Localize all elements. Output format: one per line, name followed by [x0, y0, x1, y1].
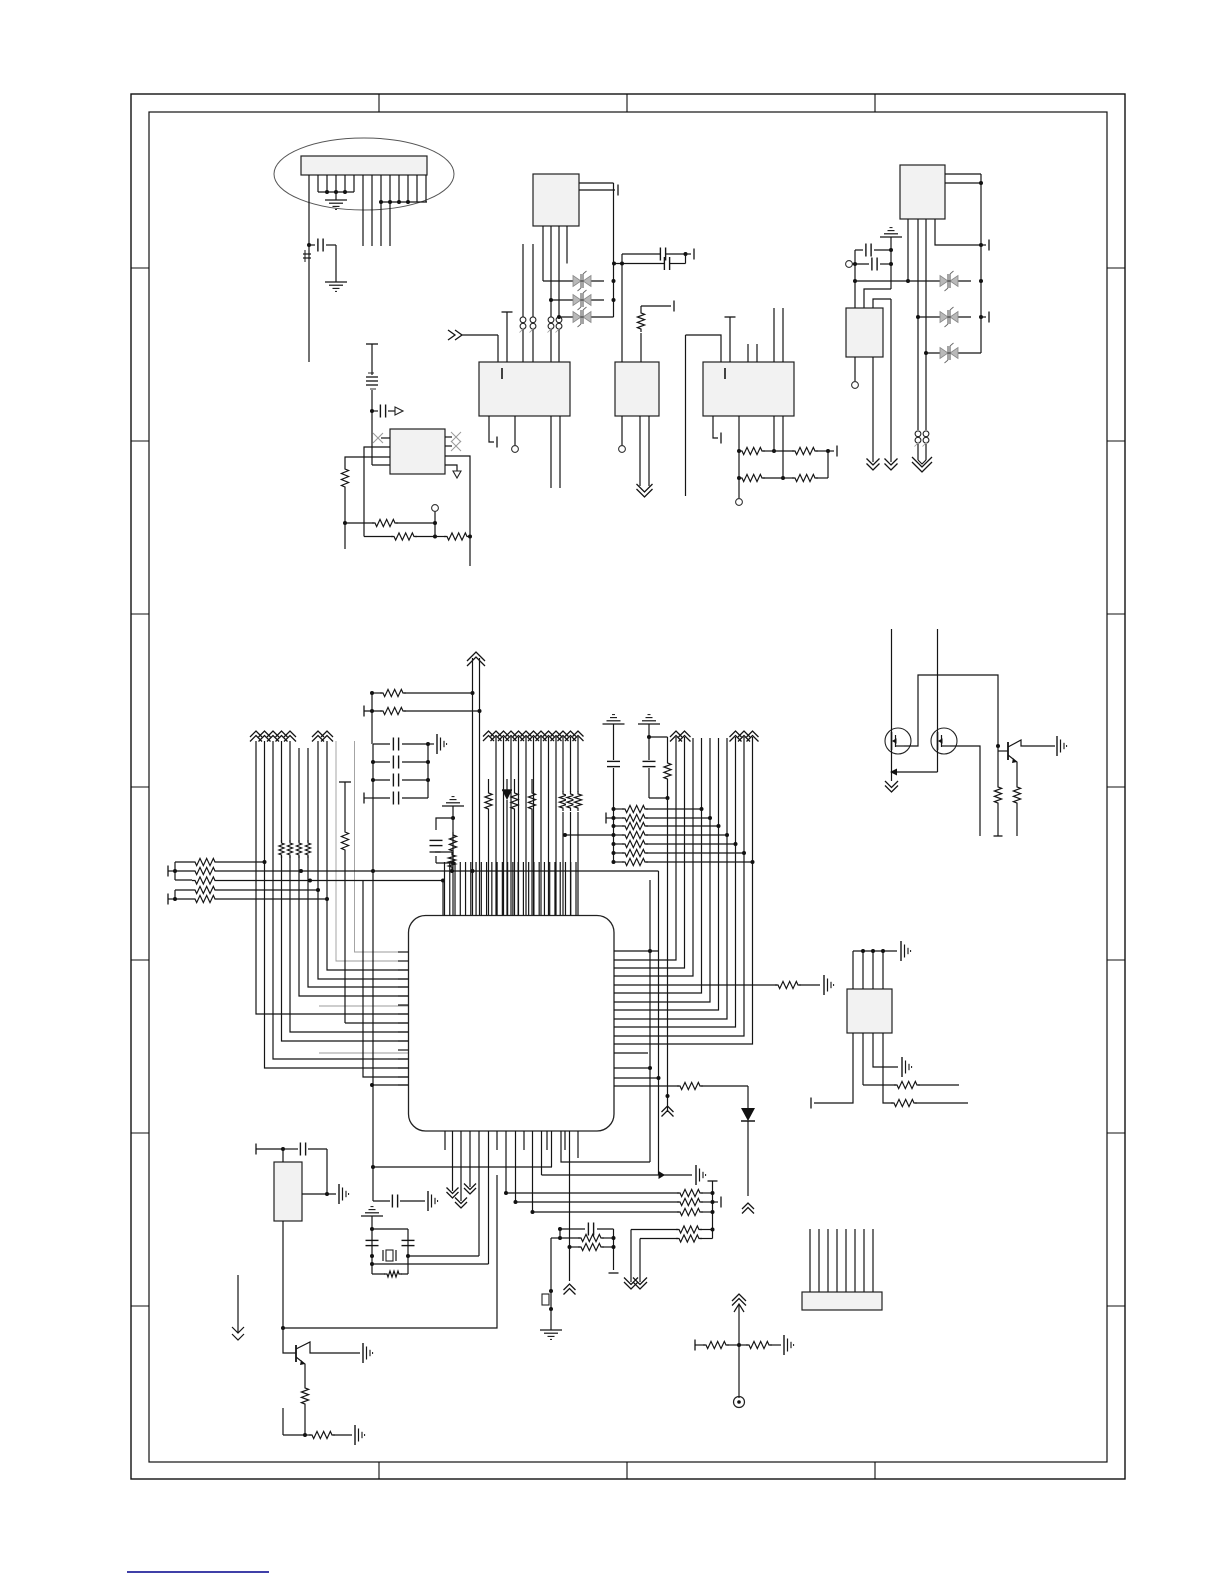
input bus B — [173, 890, 192, 901]
capacitor C11 — [283, 1143, 327, 1195]
U7 bottom pin circle — [852, 357, 859, 388]
U5 bottom pin 1 — [906, 219, 910, 283]
chevron group above MCU 2 — [536, 731, 562, 741]
ground symbol above caps — [880, 228, 902, 237]
source join wire — [890, 769, 938, 782]
row wire C — [531, 1208, 715, 1215]
MCU top pin comb — [445, 862, 577, 916]
IC U1 body — [390, 429, 445, 474]
resistor trio right — [559, 791, 583, 915]
crystal Y1 with caps — [366, 1229, 415, 1274]
ferrite bead FB4 — [548, 317, 554, 333]
MCU right pin bend 2 — [614, 737, 685, 968]
U1 NC pin X right — [445, 432, 461, 442]
MCU right pin bend 10 — [614, 737, 753, 1044]
U4 top pin wire — [621, 254, 623, 362]
left bus wire 4 — [282, 741, 409, 1041]
pull resistor row 2 — [614, 814, 713, 821]
hyperlink underline bottom left — [127, 1571, 269, 1573]
ground right of cap bank — [428, 734, 447, 754]
U8 bottom pin D — [883, 1033, 968, 1107]
U1 NC pin X — [373, 433, 390, 443]
capacitor C1 — [309, 239, 336, 283]
wire jog to U7 pin3 — [873, 299, 891, 308]
IC U2 body — [533, 174, 579, 226]
chevrons off-page pair — [624, 1278, 647, 1290]
MCU right pin bend 8 — [614, 737, 736, 1027]
U8 bottom pin C — [873, 1033, 912, 1077]
sheet border outer frame — [131, 94, 1125, 1479]
U8 bottom pin B — [862, 1033, 864, 1085]
long vertical A — [658, 871, 660, 1175]
row wire B — [514, 1197, 722, 1208]
capacitor C6 — [372, 405, 403, 418]
right row H — [640, 1235, 713, 1282]
capacitor C2 row — [622, 248, 694, 261]
header J2 body — [802, 1292, 882, 1310]
TVS row wire 2 — [916, 312, 989, 323]
MCU right pin bend 1 — [614, 737, 676, 960]
wire clock to U1 — [370, 390, 390, 465]
MCU right pin row short — [614, 1052, 648, 1054]
ground right of U8 pins — [901, 941, 911, 961]
MCU right pin bend 4 — [614, 738, 702, 993]
U6 bottom pin wire 3 — [781, 416, 785, 480]
USB data lines join — [918, 444, 926, 464]
row wire D cap — [558, 1223, 619, 1274]
left bus wire 7 — [308, 748, 409, 987]
net wire down to off-page — [890, 299, 892, 462]
border zone tick marks — [131, 94, 1125, 1479]
vertical resistor B — [511, 779, 518, 915]
signal bundle into MCU top — [496, 737, 556, 915]
U6 pin1 mark — [724, 368, 726, 379]
MOSFET Q2 — [931, 629, 957, 772]
MCU right pin bend 3 — [614, 738, 693, 976]
MCU right row j1 — [614, 1067, 650, 1069]
TVS diode D6 — [940, 343, 958, 363]
chevron trio right — [558, 731, 584, 800]
IC U6 body — [703, 362, 794, 416]
IC U4 body — [615, 362, 659, 416]
vertical resistor A — [485, 779, 492, 915]
resistor R20 — [1013, 784, 1020, 836]
resistor R4 — [739, 474, 783, 481]
T-term and resistor at MCU top left — [430, 852, 456, 871]
U6 top pin stub B — [756, 344, 758, 362]
wire top T — [256, 1144, 285, 1155]
wire — [371, 693, 373, 744]
chevron single — [564, 1247, 576, 1295]
off-page chevrons left bus A — [250, 731, 296, 742]
wire — [344, 523, 346, 549]
tall ground symbol A — [603, 715, 625, 760]
resistor R15 row — [370, 689, 473, 696]
sheet border inner frame — [149, 112, 1107, 1462]
highlight ellipse around connector J1 — [274, 138, 454, 210]
TVS diode D3 — [573, 307, 591, 327]
cap on line A — [607, 761, 620, 810]
wire with T and resistor — [339, 782, 409, 1023]
left bus wire 2 — [265, 741, 409, 1068]
wire VDD col bottom — [373, 1085, 438, 1211]
long vertical B — [648, 880, 652, 1162]
resistor R8 row — [364, 523, 437, 540]
capacitor C5 row — [846, 258, 893, 271]
U6 bottom pin to bar — [713, 416, 721, 444]
U3 bottom pin bus B — [559, 416, 561, 488]
off-page chevron A — [867, 459, 880, 471]
pull bus bottom — [708, 1181, 718, 1239]
row to ground — [542, 1165, 706, 1185]
wire U2 right vertical — [613, 183, 615, 317]
crystal wire to MCU A — [408, 1255, 479, 1257]
resistor R18 row — [863, 1081, 959, 1088]
U1 right pin power arrow — [445, 465, 461, 478]
node — [612, 262, 616, 266]
off-page arrow into U3 — [448, 330, 498, 362]
RF row — [695, 1335, 794, 1355]
left bus wire 1 — [256, 741, 409, 1014]
ferrite bead FB6 — [915, 431, 921, 447]
MCU right pin bend 6 — [614, 738, 719, 1010]
ferrite bead FB7 — [923, 431, 929, 447]
decoupling capacitor bank C7-C10 — [364, 738, 430, 805]
U5 bottom pin 2 — [917, 219, 919, 430]
U6 top pin long B — [782, 308, 784, 362]
resistor R7 row — [345, 519, 437, 526]
connector J1 body — [301, 156, 427, 175]
net arrow down left — [232, 1275, 244, 1340]
pull resistor row 5 — [614, 840, 738, 847]
U1 right pin wire — [445, 456, 470, 566]
resistor R22 — [305, 1425, 365, 1445]
long rail wire — [283, 1175, 497, 1328]
node — [557, 315, 561, 319]
resistor R2 — [739, 447, 774, 454]
ground symbol small — [442, 797, 464, 863]
ground above crystal — [361, 1207, 383, 1231]
U8 bottom pin A — [811, 1033, 853, 1109]
vcc chevron above MCU — [467, 652, 485, 666]
U6 bottom pin wire 2 — [772, 416, 776, 453]
capacitor C4 row — [855, 244, 893, 257]
gray row 12 — [319, 1052, 409, 1054]
vertical resistor C — [528, 779, 535, 915]
vcc rail wires — [471, 658, 482, 915]
TVS diode D1 — [573, 271, 591, 291]
transistor Q3 — [998, 736, 1067, 784]
U3 top pin T-term — [502, 312, 513, 362]
input bus A — [173, 862, 192, 880]
resistor R10 — [192, 858, 267, 865]
ferrite bead FB5 — [556, 317, 562, 333]
resistor R6 — [341, 466, 348, 525]
pushbutton SW1 — [542, 1238, 560, 1330]
MCU right pin row 1 — [614, 949, 659, 953]
connector J1 left pins to ground bus — [318, 175, 354, 200]
connector J1 middle pins — [363, 175, 390, 246]
connector J1 pin 1 wire — [308, 175, 310, 362]
ferrite bead FB2 — [520, 317, 526, 333]
U2 pin wire C — [550, 226, 552, 362]
ferrite bead FB3 — [530, 317, 536, 333]
pull resistor row 3 — [614, 822, 721, 829]
RF antenna chevron — [732, 1294, 746, 1398]
RC parallel pair — [643, 737, 672, 800]
wire stub to U3 pin 2 — [532, 244, 534, 362]
MCU right pin bend 7 — [614, 738, 727, 1019]
U3 pin1 mark — [501, 368, 503, 379]
U3 bottom pin open circle — [512, 416, 519, 452]
wire stub — [283, 1408, 305, 1435]
ground below C1 — [325, 282, 347, 291]
pull resistor row 6 — [614, 849, 747, 856]
wire seg — [559, 1229, 561, 1238]
TVS diode row wire 3 — [559, 316, 614, 318]
off-page chevron below U4 — [637, 484, 653, 497]
row to resistor R17 — [614, 1082, 748, 1089]
resistor R5 — [783, 451, 828, 482]
MCU U9 body — [409, 916, 615, 1132]
MCU left pin stubs — [398, 952, 409, 1085]
RF connector J3 — [734, 1397, 745, 1408]
rail row 881 — [363, 879, 445, 916]
U2 pin wire B — [558, 226, 560, 362]
U10 bottom wire — [281, 1221, 285, 1330]
U2 pin wire D — [542, 226, 544, 281]
VDD rail long wire — [371, 798, 375, 1085]
resistor R23 — [384, 1269, 402, 1279]
TVS row wire 1 — [855, 279, 983, 283]
capacitor C3 row — [614, 254, 686, 270]
off-page chevron B — [885, 459, 898, 471]
ferrite bead FB1 on J1 pin1 wire — [303, 250, 311, 262]
U1 left pin wire A — [364, 447, 390, 537]
chevron pair right of MCU — [670, 731, 691, 742]
header J2 pin comb — [810, 1229, 873, 1292]
U2 pin wire A — [566, 226, 568, 264]
IC U7 body — [846, 308, 883, 357]
left bus wire 5 — [290, 741, 409, 1032]
input T-term B — [168, 894, 175, 905]
MCU right pin bend 9 — [614, 737, 744, 1036]
wire left cap bus — [853, 250, 857, 308]
resistor R3 — [774, 446, 837, 457]
U3 bottom pin bus A — [550, 416, 552, 488]
transistor Q4 — [283, 1328, 373, 1385]
node — [549, 298, 553, 302]
resistor R12 — [192, 877, 363, 884]
wire — [890, 237, 892, 289]
left bus wire 8 — [318, 741, 409, 979]
resistor R13 — [192, 886, 320, 893]
pull resistor on bus — [296, 840, 303, 858]
crystal wire to MCU B — [372, 1263, 489, 1265]
regulator U10 body — [274, 1162, 302, 1221]
left bus wire 9 — [327, 741, 409, 970]
left row 15 — [363, 881, 409, 1078]
IC U8 body — [847, 989, 892, 1033]
wire row 1167 — [371, 1165, 552, 1169]
U10 top pin — [282, 1149, 284, 1162]
diode D8 — [741, 1086, 755, 1196]
wire stub to U3 pin — [522, 244, 524, 362]
pull resistor on bus — [287, 840, 294, 858]
U8 top pins — [853, 949, 897, 989]
resistor R14 — [192, 895, 329, 902]
U3 bottom pin to bar — [489, 416, 497, 448]
chevron trio right of MCU — [730, 731, 759, 742]
MCU right row j2 — [614, 1076, 661, 1080]
gray bus wire 1 — [336, 741, 409, 961]
MOSFET Q1 — [885, 629, 911, 772]
U5 bottom pin 3 — [925, 219, 927, 430]
net wire long vertical — [686, 335, 722, 496]
U10 right pin to ground — [302, 1184, 349, 1204]
ferrite bead FB8 on clock line — [366, 373, 378, 389]
rail row 871 — [373, 869, 659, 873]
row with resistor to ground — [614, 975, 834, 995]
RC pair — [430, 816, 457, 915]
U7 bottom pin off-page — [872, 357, 874, 462]
IC U3 body — [479, 362, 570, 416]
chevrons below MCU pins — [447, 1184, 477, 1209]
input T-term A — [168, 866, 175, 877]
TVS diode D5 — [940, 307, 958, 327]
off-page chevron C wide — [912, 457, 932, 472]
U5 lower loop wire — [935, 219, 989, 251]
U1 NC pin X right 2 — [445, 441, 461, 451]
resistor R9 row — [435, 533, 472, 540]
wire right TVS bus — [980, 245, 982, 353]
left row 16 — [370, 1083, 409, 1087]
LED D7 — [502, 779, 512, 915]
pull-up bus right — [606, 807, 616, 864]
resistor R11 — [192, 867, 373, 874]
right row G — [631, 1226, 713, 1282]
resistor R16 row — [364, 706, 480, 717]
U1 left pin wire B — [345, 457, 390, 466]
gate wire Q2 — [950, 746, 980, 836]
U6 top pin T-term — [725, 317, 736, 362]
U4 bottom pins to off-page — [640, 416, 649, 486]
IC U5 body — [900, 165, 945, 219]
pull resistor row 4 — [563, 831, 729, 838]
U6 top pin stub A — [747, 344, 749, 362]
TVS diode D2 — [573, 290, 591, 310]
U6 bottom pin wire — [736, 416, 743, 505]
pull resistor row 7 — [614, 858, 755, 865]
gray bus wire 2 — [355, 741, 409, 952]
U2 right pin wire lower — [579, 185, 618, 196]
row wire A — [504, 1189, 713, 1196]
TVS row wire 3 — [924, 351, 981, 355]
TVS diode D4 — [940, 271, 958, 291]
wire jog to U7 pin2 — [864, 289, 891, 308]
U2 right pin wire upper — [579, 182, 614, 184]
TVS diode row wire 2 — [551, 298, 616, 302]
U4 bottom pin open circle — [619, 416, 626, 452]
row wire F — [568, 1243, 616, 1250]
pull resistor row 1 — [614, 805, 704, 812]
resistor R19 — [994, 746, 1003, 836]
row bend — [561, 1131, 650, 1162]
chevron ground below Q1 — [885, 781, 898, 792]
MCU bottom pin comb — [445, 1131, 578, 1264]
U4 top pin resistor R1 — [637, 301, 674, 363]
U6 top pin long A — [773, 308, 775, 362]
gray row 7 — [319, 1005, 409, 1007]
chevron group above MCU — [483, 731, 539, 741]
left bus wire 6 — [299, 748, 409, 996]
ground at J1 bus — [325, 200, 347, 209]
node junction on J1 pin1 wire — [307, 243, 311, 247]
resistor R21 — [301, 1385, 308, 1437]
TVS diode row wire 1 — [543, 279, 616, 283]
pin circle — [432, 505, 439, 523]
wire T-term to bead — [366, 344, 378, 375]
left bus wire 3 — [273, 741, 409, 1059]
MCU right pin bend 5 — [614, 738, 710, 1002]
ground below switch — [540, 1330, 562, 1339]
pull resistor on bus — [305, 840, 312, 858]
off-page chevrons left bus B — [312, 731, 333, 742]
tall ground symbol B — [638, 715, 660, 739]
pull resistor on bus — [278, 840, 285, 858]
connector J1 right pins bus — [379, 175, 427, 204]
gate wire Q1 — [904, 675, 1000, 748]
U5 right pin wires — [945, 174, 983, 245]
net vertical to chevron — [662, 798, 674, 1117]
chevron below diode — [742, 1203, 754, 1214]
row wire E — [558, 1234, 616, 1241]
